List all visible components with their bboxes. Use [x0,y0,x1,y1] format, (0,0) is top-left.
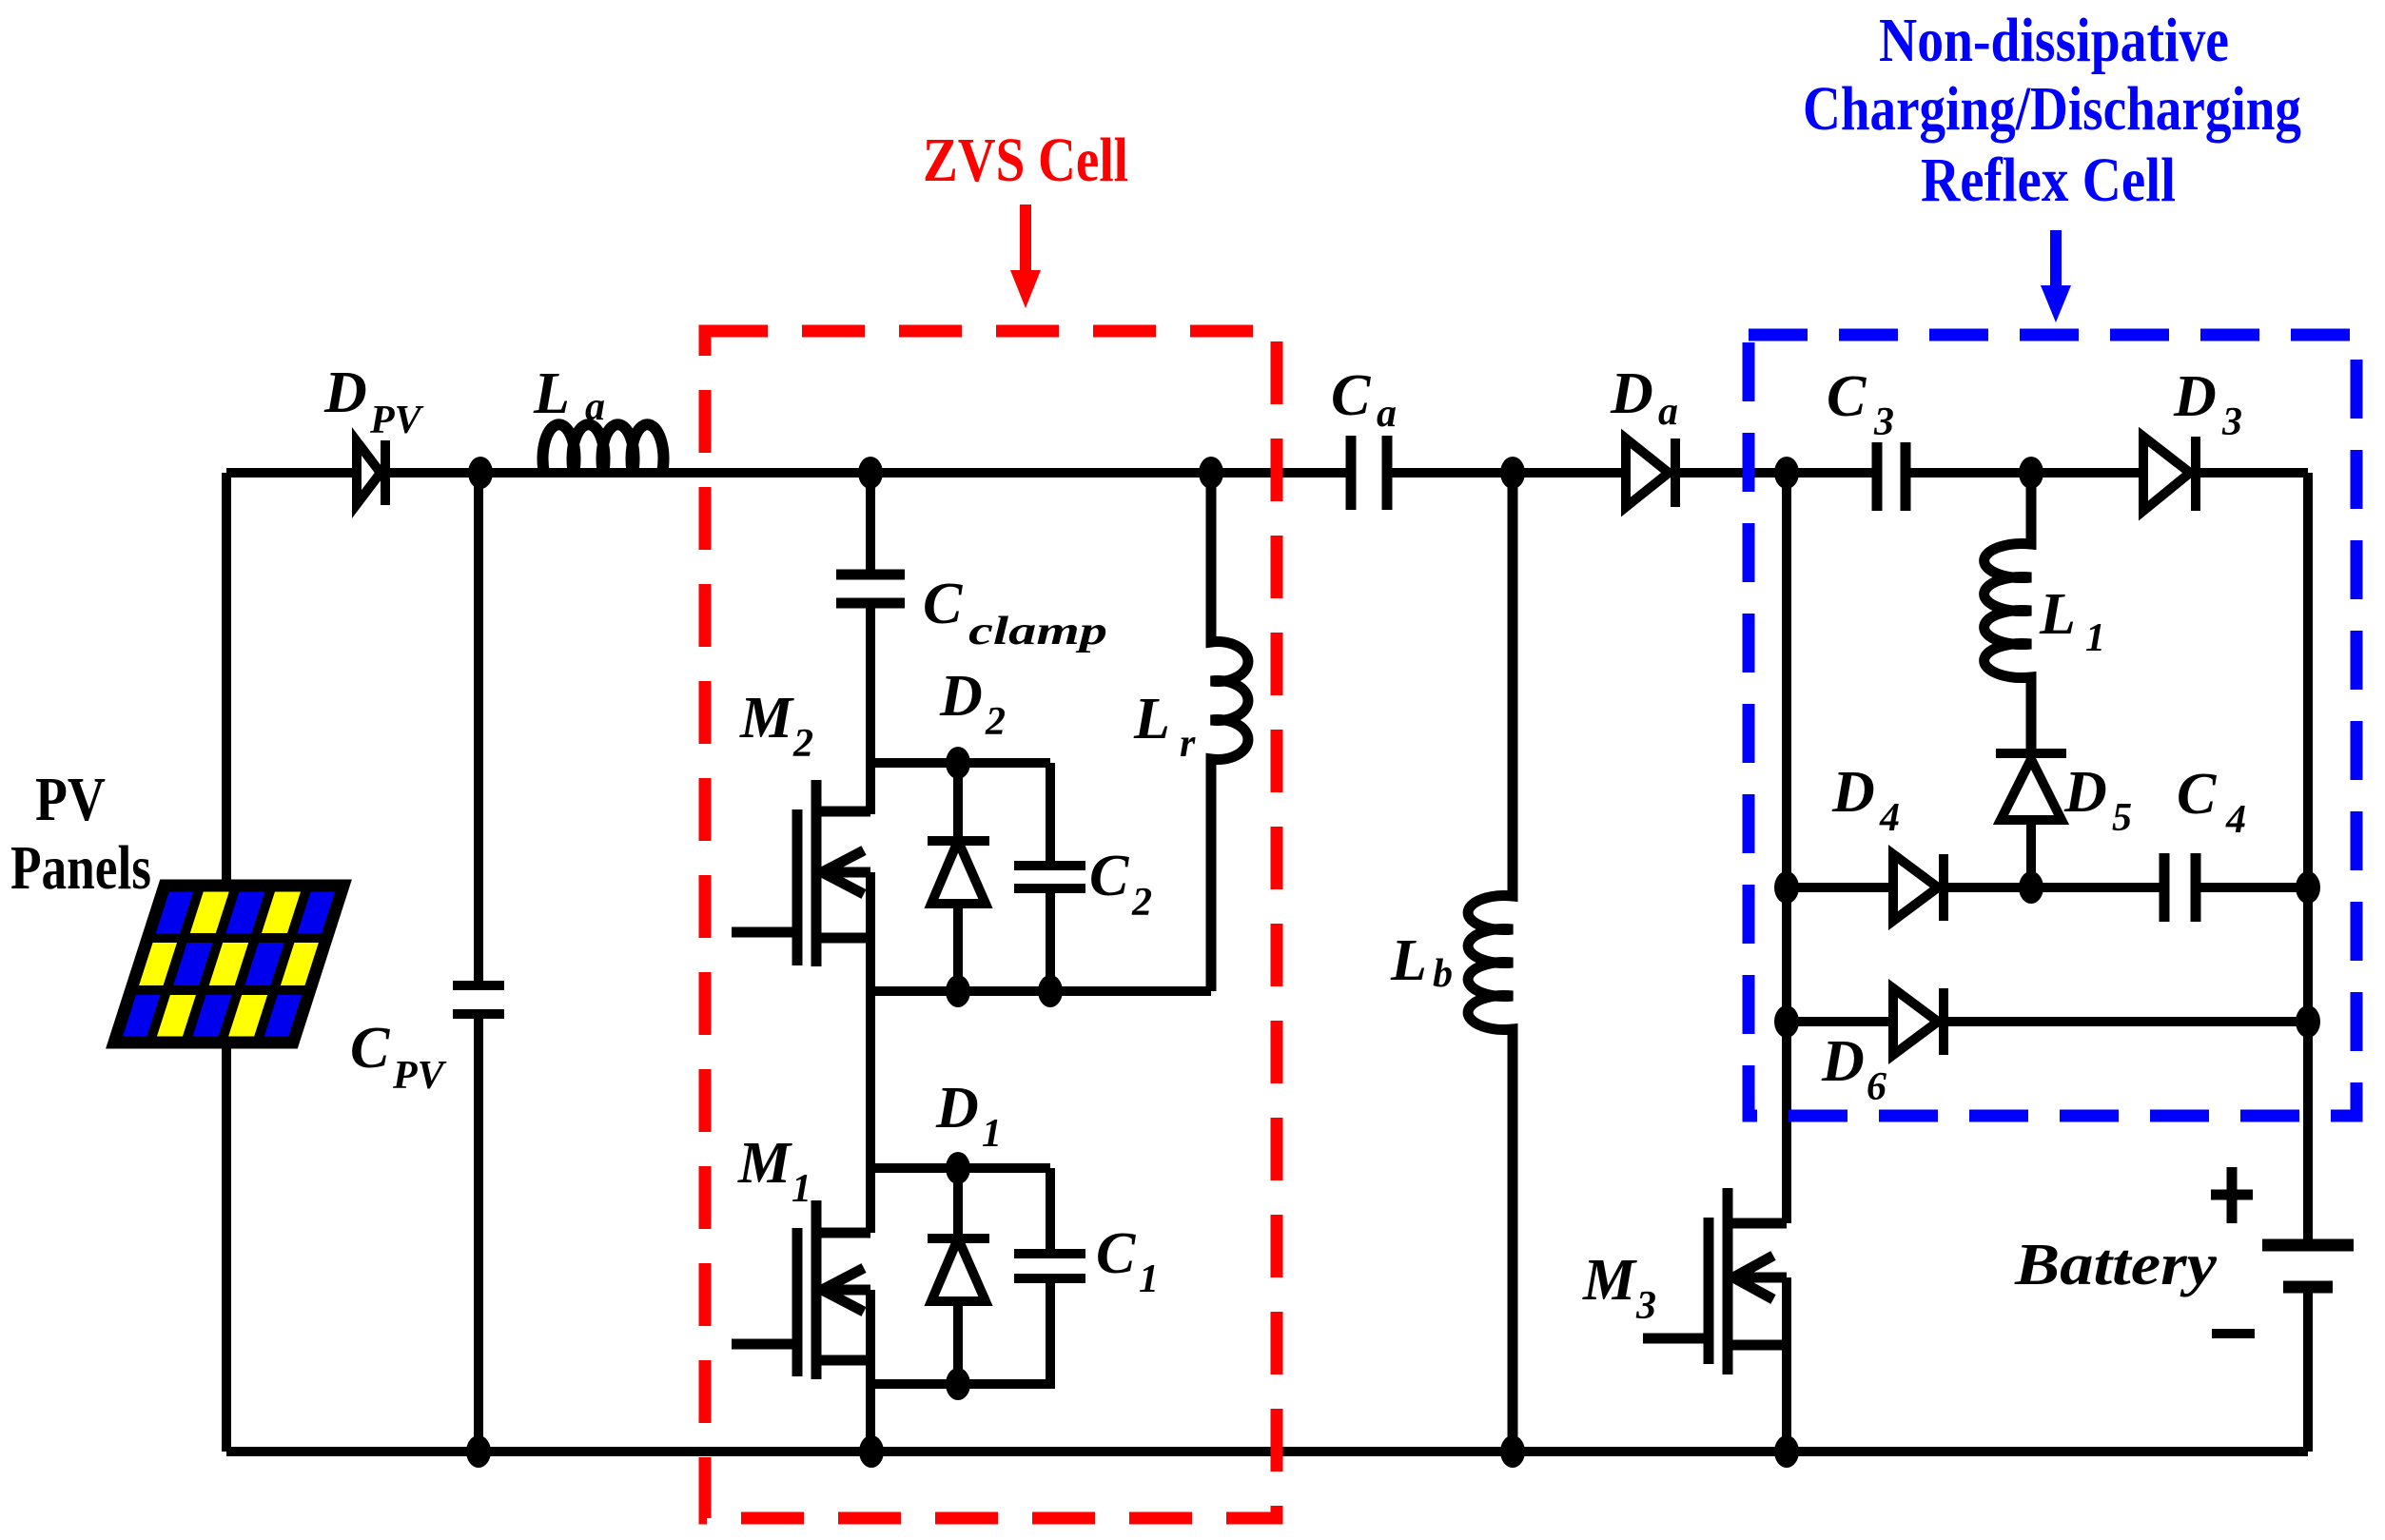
transistor M1 [732,1200,870,1379]
node: L1 top junction [2019,457,2043,489]
svg-text:C: C [1827,364,1867,429]
label battery minus [2212,1329,2255,1338]
red dashed box ZVS cell [705,331,1277,1518]
arrow: blue pointer to reflex cell [2041,230,2071,322]
diode D4 [1893,854,1944,921]
capacitor Cclamp [836,575,905,603]
node: reflex cell input junction [1774,457,1799,489]
svg-text:3: 3 [1635,1284,1656,1328]
svg-text:C: C [1089,844,1129,908]
svg-text:D: D [1610,361,1653,426]
node: Lb top junction [1500,457,1525,489]
svg-text:D: D [323,361,367,425]
wire: M3 source vertical to bottom bus [1782,1277,1791,1452]
svg-text:a: a [1658,390,1678,434]
svg-text:L: L [1133,687,1170,751]
svg-text:Battery: Battery [2014,1233,2218,1297]
svg-text:2: 2 [985,700,1006,744]
node: D2 bottom [946,975,970,1007]
svg-text:a: a [585,385,605,429]
svg-text:PV: PV [369,399,424,442]
svg-text:L: L [1390,928,1427,993]
wire: D6 rail [1787,1017,2308,1026]
node: Lr top junction [1199,457,1223,489]
svg-text:M: M [737,1131,792,1196]
svg-text:C: C [923,572,963,636]
node: bottom bus Lb [1500,1435,1525,1468]
svg-text:L: L [2039,582,2076,647]
svg-text:Reflex Cell: Reflex Cell [1921,146,2176,215]
svg-text:D: D [939,664,983,729]
diode D3 [2143,437,2196,511]
wire: M2 cell bottom rail [870,986,1211,996]
node A: junction top of CPV [468,457,493,489]
svg-text:1: 1 [2085,616,2105,660]
PV panel icon [114,886,343,1043]
svg-text:Panels: Panels [10,833,151,903]
capacitor C1 [1014,1168,1085,1384]
svg-text:3: 3 [2221,400,2242,444]
capacitor Ca [1351,436,1387,510]
node: M2 drain branch junction [858,457,883,489]
wire: M1 source vertical to bottom bus [866,1290,875,1452]
svg-text:2: 2 [792,722,813,766]
inductor L1 [1984,473,2031,751]
svg-text:4: 4 [1879,796,1900,840]
node: C4 right junction [2296,871,2320,904]
capacitor C2 [1014,763,1085,991]
svg-text:6: 6 [1867,1065,1886,1109]
blue dashed box reflex cell [1749,335,2356,1116]
svg-text:b: b [1433,952,1453,996]
svg-text:4: 4 [2225,798,2246,842]
wire: CPV branch vertical [474,473,483,1452]
svg-text:D: D [1831,760,1875,825]
diode D1 [928,1168,989,1384]
svg-text:C: C [1331,363,1371,428]
label battery plus [2211,1167,2253,1223]
svg-text:C: C [350,1016,390,1081]
svg-text:D: D [935,1076,979,1140]
diode D2 [928,763,989,991]
svg-text:1: 1 [982,1112,1002,1156]
transistor M2 [732,780,870,966]
node: D1 bottom [946,1368,970,1400]
node: D6 right junction [2296,1005,2320,1038]
battery symbol [2262,1245,2354,1287]
svg-text:PV: PV [392,1054,447,1098]
wire: D4/C4 rail [1787,883,2308,892]
svg-text:a: a [1377,392,1397,436]
node: D1 top junction [946,1152,970,1184]
svg-text:clamp: clamp [968,610,1107,653]
capacitor CPV [453,985,504,1014]
svg-text:ZVS Cell: ZVS Cell [923,126,1128,195]
wire: right battery vertical [2303,473,2313,1452]
svg-text:M: M [1582,1248,1637,1313]
svg-text:r: r [1180,722,1196,766]
svg-text:D: D [1821,1029,1865,1094]
node: C2 bottom [1038,975,1063,1007]
svg-text:PV: PV [35,765,106,834]
svg-text:1: 1 [1139,1257,1159,1301]
node: D4 left junction [1774,871,1799,904]
inductor Lb [1468,473,1513,1452]
svg-text:M: M [739,686,794,751]
svg-text:2: 2 [1131,881,1152,925]
wire: M2 drain chain with Cclamp [866,473,875,814]
transistor M3 [1643,1188,1787,1374]
inductor La [543,424,664,473]
svg-text:1: 1 [792,1167,811,1211]
svg-text:C: C [1096,1221,1136,1286]
wire: top bus from PV to battery [226,468,2308,478]
svg-text:C: C [2177,762,2217,827]
svg-text:Non-dissipative: Non-dissipative [1879,6,2229,75]
wire: bottom return bus [226,1447,2308,1456]
node: D6 left junction [1774,1005,1799,1038]
inductor Lr [1211,473,1248,991]
node: bottom bus M1 source [859,1435,884,1468]
wire: left PV vertical [222,473,231,1452]
wire: M1 top rail [870,1163,1050,1173]
node: D5/C4 junction [2019,871,2043,904]
diode DPV [357,440,385,505]
diode Da [1626,439,1675,507]
wire: M2 source vertical down to M1 [866,872,875,1233]
diode D5 [1996,753,2066,887]
diode D6 [1893,988,1944,1055]
svg-text:D: D [2173,364,2217,429]
node: D2 top junction [946,747,970,779]
wire: D2/C2 top rail [870,758,1050,768]
wire: M1 cell bottom rail [870,1278,1050,1384]
capacitor C3 [1877,442,1906,511]
node: bottom bus CPV [466,1435,491,1468]
node: bottom bus M3 source [1774,1435,1799,1468]
svg-text:D: D [2063,760,2107,825]
wire: M3 drain vertical through D4/D6 [1782,473,1791,1223]
svg-text:5: 5 [2112,796,2132,840]
arrow: red pointer to ZVS cell [1010,205,1041,308]
svg-text:3: 3 [1873,400,1894,444]
svg-text:L: L [533,361,570,426]
capacitor C4 [2164,853,2196,922]
svg-text:Charging/Discharging: Charging/Discharging [1803,74,2301,144]
